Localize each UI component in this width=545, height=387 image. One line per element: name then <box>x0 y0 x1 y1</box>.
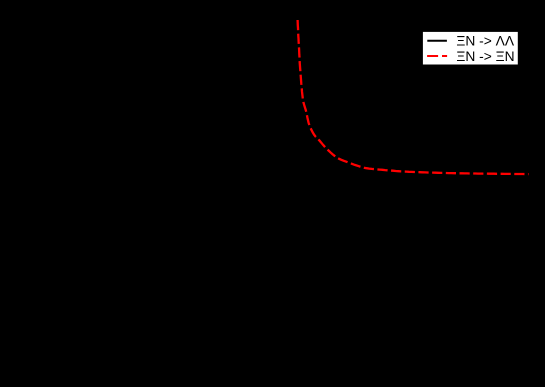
svg-text:ΞN -> ΛΛ: ΞN -> ΛΛ <box>456 34 514 49</box>
svg-text:ΞN -> ΞN: ΞN -> ΞN <box>456 49 514 64</box>
